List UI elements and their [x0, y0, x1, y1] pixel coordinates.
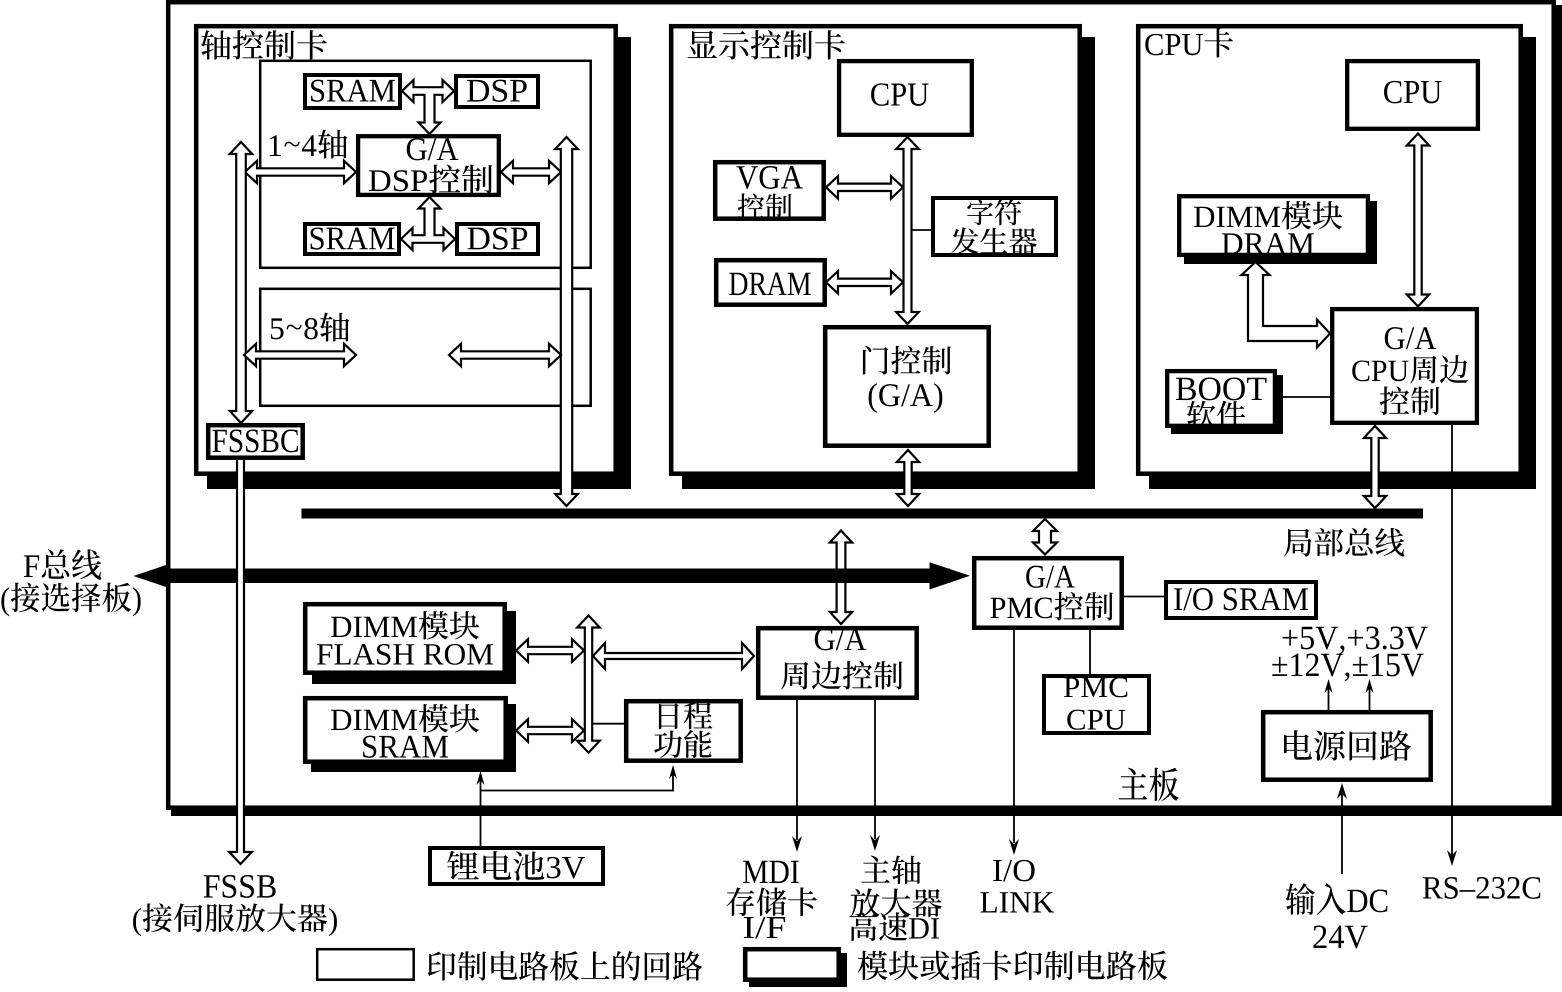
- label G/A: [1026, 566, 1045, 588]
- F bus right arrowhead into G/A PMC控制: [930, 562, 971, 589]
- label 控制: [1380, 386, 1409, 415]
- wire 主轴 down: [874, 700, 876, 839]
- arrow CPU to 门控制 vertical: [896, 137, 919, 324]
- label CPU卡: [1145, 34, 1162, 56]
- label DRAM: [729, 273, 747, 295]
- label G/A: [407, 138, 427, 160]
- arrow SRAM-DSP bottom with branch to G/A DSP控制: [401, 197, 455, 250]
- wire BOOT软件 to G/A CPU周边控制: [1277, 396, 1331, 398]
- arrow 5-8axis left: [244, 344, 356, 366]
- wire MDI down: [796, 700, 798, 840]
- arrow VGA控制 horizontal: [826, 176, 903, 199]
- label DSP控制: [369, 170, 390, 191]
- box G/A 周边控制: [758, 628, 917, 698]
- arrow 5-8axis right: [449, 344, 561, 366]
- wire RS-232C down: [1451, 424, 1453, 861]
- box I/O SRAM: [1166, 582, 1316, 618]
- arrow FLASH ROM to riser: [516, 639, 584, 662]
- label 轴控制卡: [201, 30, 231, 59]
- label CPU: [871, 83, 888, 106]
- label CPU: [1067, 710, 1085, 730]
- label 1~4轴: [270, 135, 281, 156]
- label G/A: [1385, 327, 1405, 349]
- label PMC控制: [990, 598, 1005, 618]
- label 门控制: [863, 346, 888, 375]
- inner group box 1-4 axis: [260, 61, 591, 268]
- label 高速DI: [850, 912, 877, 941]
- label SRAM: [311, 227, 324, 249]
- arrow local bus to G/A PMC控制: [1033, 519, 1057, 555]
- label CPU: [1384, 81, 1401, 104]
- legend box pcb circuit: [317, 949, 414, 980]
- label DRAM: [1222, 233, 1242, 254]
- label I/O SRAM: [1174, 588, 1182, 610]
- arrow SRAM-DSP top with branch to G/A DSP控制: [402, 80, 454, 134]
- label 存储卡: [726, 887, 754, 916]
- box CPU (display card): [839, 61, 972, 135]
- box SRAM bottom: [305, 224, 399, 254]
- label 发生器: [951, 227, 978, 254]
- label 输入DC: [1286, 883, 1315, 915]
- label FSSBC: [212, 430, 226, 452]
- label 锂电池3V: [447, 851, 478, 880]
- label (接伺服放大器): [133, 908, 141, 936]
- box BOOT软件: [1171, 375, 1283, 434]
- label (G/A): [869, 383, 877, 413]
- box DSP top: [456, 76, 538, 107]
- label DIMM模块: [1194, 207, 1214, 227]
- card 显示控制卡: [682, 37, 1095, 489]
- box 电源回路: [1263, 712, 1431, 780]
- label DSP: [467, 80, 489, 102]
- wire 输入DC up into 电源回路: [1341, 788, 1343, 874]
- label 显示控制卡: [688, 31, 717, 58]
- label FSSB: [204, 875, 220, 897]
- wire G/A PMC控制 to PMC CPU: [1089, 630, 1091, 674]
- wire 电源回路 up arrow 2: [1369, 684, 1371, 711]
- wire riser to 日程功能: [593, 723, 624, 725]
- arrow G/A DSP控制 right: [501, 161, 561, 183]
- label DIMM模块: [331, 617, 351, 637]
- F bus left arrowhead: [134, 564, 170, 588]
- label DSP: [467, 228, 489, 250]
- box DRAM: [716, 260, 825, 305]
- wire 锂电池3V up to DIMM SRAM: [480, 776, 482, 846]
- box DIMM模块 FLASH ROM: [312, 611, 516, 684]
- label MDI: [743, 861, 768, 883]
- arrow riser to G/A 周边控制: [593, 643, 754, 669]
- arrow L-shape G/A to DIMM DRAM: [1242, 262, 1331, 348]
- arrow FSSBC down to FSSB: [229, 460, 252, 864]
- label ±12V,±15V: [1272, 657, 1287, 676]
- label +5V,+3.3V: [1283, 630, 1298, 646]
- label 日程: [659, 703, 679, 729]
- box FSSBC: [208, 425, 303, 458]
- label 印制电路板上的回路: [428, 952, 456, 981]
- label 功能: [654, 730, 682, 758]
- label 电源回路: [1284, 730, 1312, 760]
- box 字符发生器: [933, 198, 1056, 255]
- wire G/A PMC控制 to I/O SRAM: [1124, 596, 1164, 598]
- label I/O: [993, 860, 1002, 881]
- arrow vertical left FSSBC riser: [230, 142, 252, 423]
- label CPU周边: [1352, 360, 1369, 381]
- label 主轴: [861, 855, 890, 882]
- label SRAM: [311, 80, 324, 102]
- arrow vertical right riser to local bus: [555, 137, 578, 506]
- label 控制: [738, 193, 764, 219]
- label G/A: [815, 628, 835, 650]
- box SRAM top: [305, 75, 400, 108]
- label 主板: [1119, 768, 1148, 800]
- label PMC: [1064, 677, 1079, 697]
- label I/F: [744, 917, 754, 938]
- label BOOT: [1176, 378, 1196, 400]
- arrow DRAM horizontal: [826, 271, 903, 294]
- label VGA: [736, 166, 758, 189]
- legend box module card: [749, 953, 847, 988]
- arrow 门控制 to local bus: [897, 450, 919, 506]
- label F总线: [24, 555, 39, 577]
- wire 锂电池 branch to 日程功能: [481, 790, 674, 792]
- main board 主板 outer box: [171, 5, 1562, 816]
- F bus bar: [160, 569, 950, 584]
- arrow 1-4axis bus left: [245, 161, 356, 183]
- label 软件: [1187, 401, 1215, 429]
- arrow CPU to G/A CPU周边控制: [1407, 134, 1429, 307]
- arrow central riser: [577, 616, 600, 753]
- card CPU卡: [1149, 37, 1536, 489]
- local bus 局部总线 bar: [302, 509, 1424, 519]
- label 字符: [967, 199, 993, 225]
- box 锂电池3V: [430, 848, 603, 884]
- label 5~8轴: [271, 318, 284, 339]
- hollow arrow local bus to G/A 周边控制: [830, 531, 852, 625]
- label 局部总线: [1284, 529, 1311, 557]
- inner group box 5-8 axis: [260, 289, 591, 406]
- box G/A DSP控制: [358, 136, 499, 195]
- label LINK: [980, 892, 996, 912]
- label SRAM: [363, 736, 376, 758]
- box G/A PMC控制: [974, 558, 1121, 628]
- box DIMM模块DRAM: [1184, 201, 1377, 264]
- box DIMM模块 SRAM: [311, 704, 516, 772]
- label 周边控制: [781, 662, 808, 690]
- wire 电源回路 up arrow 1: [1328, 684, 1330, 711]
- arrow DIMM SRAM to riser: [516, 719, 584, 742]
- label RS–232C: [1423, 877, 1443, 898]
- label 放大器: [851, 888, 880, 917]
- box G/A CPU周边控制: [1332, 309, 1477, 423]
- arrow G/A CPU周边控制 to local bus: [1364, 426, 1386, 508]
- box VGA控制: [715, 162, 824, 219]
- wire I/O LINK down: [1013, 630, 1015, 843]
- box CPU (cpu card): [1347, 61, 1478, 129]
- label DIMM模块: [331, 710, 351, 730]
- label 模块或插卡印制电路板: [858, 951, 888, 981]
- card 轴控制卡: [207, 37, 631, 489]
- box PMC CPU: [1044, 676, 1149, 733]
- label (接选择板): [1, 587, 9, 616]
- box 门控制(G/A): [825, 327, 989, 446]
- label 24V: [1313, 925, 1326, 948]
- box DSP bottom: [457, 224, 538, 254]
- label FLASH ROM: [317, 644, 332, 664]
- wire 字符发生器 to CPU arrow: [906, 229, 931, 231]
- box 日程功能: [626, 701, 741, 761]
